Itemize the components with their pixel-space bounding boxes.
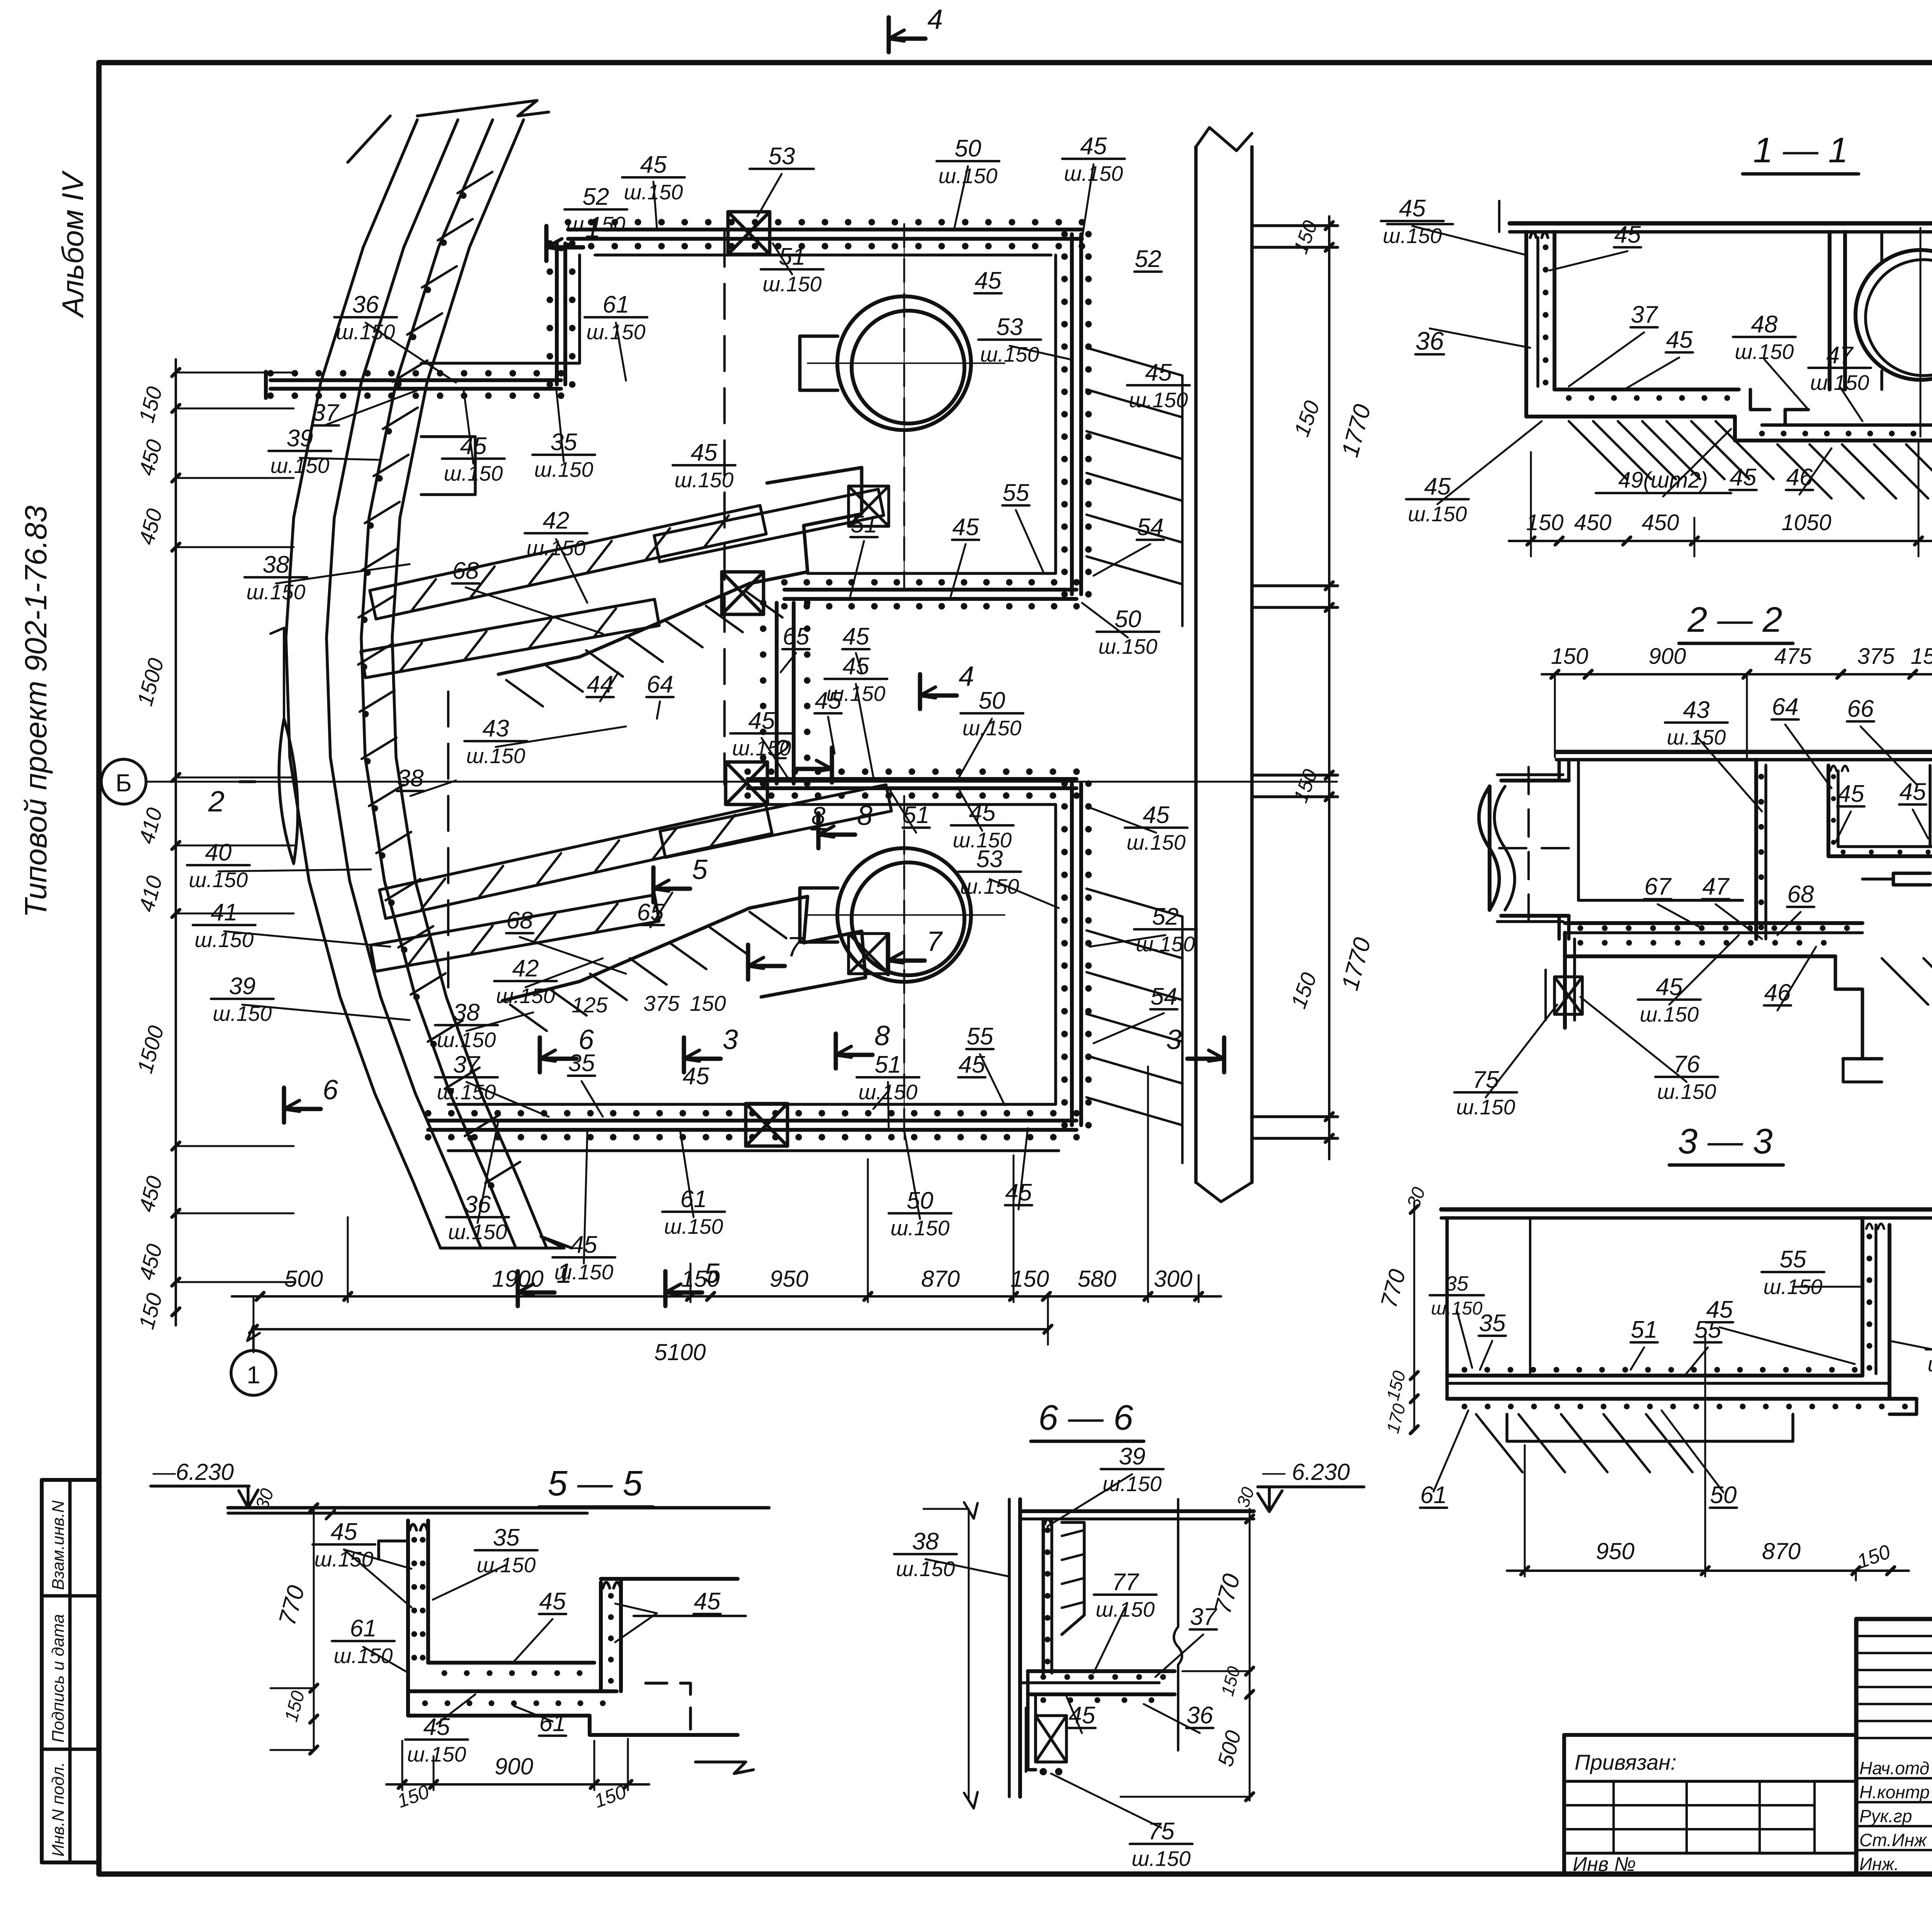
2-2 dims top	[1542, 673, 1932, 675]
section mark 1 top	[544, 226, 548, 261]
svg-text:41: 41	[211, 899, 238, 926]
svg-text:37: 37	[1631, 301, 1658, 328]
1-1 pillars	[1828, 232, 1832, 389]
6-6 mid slab	[1028, 1669, 1175, 1673]
dashed construction line x=1160 (axis2)	[447, 692, 449, 1005]
svg-text:75: 75	[1473, 1066, 1499, 1093]
2-2 floor slab	[1565, 921, 1862, 925]
svg-text:50: 50	[907, 1187, 934, 1214]
5-5 left dim chain	[313, 1508, 315, 1750]
6-6 leaders	[925, 1559, 1009, 1577]
svg-text:375: 375	[1857, 644, 1895, 669]
svg-text:51: 51	[779, 243, 806, 270]
svg-text:ш.150: ш.150	[675, 468, 734, 492]
2-2 top slab	[1556, 750, 1932, 754]
svg-text:45: 45	[640, 151, 667, 178]
6-6 right dim chain	[1249, 1509, 1251, 1801]
svg-text:61: 61	[680, 1186, 707, 1213]
plan wall: room A top	[568, 237, 1082, 241]
bottom dimension row 2: 5100	[253, 1328, 1048, 1330]
svg-text:54: 54	[1151, 983, 1177, 1010]
3-3 floor slab	[1447, 1374, 1862, 1378]
1-1 top slab	[1510, 221, 1932, 225]
ticks along curved band	[457, 172, 492, 193]
svg-text:51: 51	[1631, 1316, 1658, 1343]
svg-text:475: 475	[1774, 644, 1812, 669]
band top break	[417, 100, 549, 116]
signature table	[1856, 1617, 1932, 1621]
6-6 top slab	[1020, 1509, 1254, 1513]
1-1 left wall	[1524, 232, 1528, 417]
svg-text:4: 4	[927, 4, 943, 35]
2-2 right U box	[1827, 765, 1830, 856]
svg-text:42: 42	[543, 507, 570, 534]
3-3 left dims rotated	[1413, 1202, 1415, 1430]
svg-text:65: 65	[783, 623, 810, 650]
2-2 interior left chamber outline	[1578, 760, 1743, 900]
svg-text:1050: 1050	[1781, 510, 1831, 535]
svg-text:1 — 1: 1 — 1	[1753, 131, 1848, 170]
2-2 center wall with dots	[1754, 760, 1758, 939]
circle well room B	[837, 848, 971, 982]
svg-text:ш.150: ш.150	[1408, 502, 1467, 526]
svg-text:45: 45	[683, 1063, 709, 1090]
svg-text:77: 77	[1112, 1569, 1139, 1595]
section mark 5 mid	[651, 867, 655, 902]
svg-text:68: 68	[507, 907, 533, 934]
svg-text:43: 43	[1683, 697, 1710, 723]
3-3 left edge	[1446, 1218, 1449, 1399]
plan wall: corridor between rooms	[775, 603, 779, 784]
svg-text:Н.контр: Н.контр	[1859, 1782, 1930, 1802]
svg-text:55: 55	[967, 1023, 993, 1050]
circle centerlines	[903, 224, 905, 587]
svg-text:53: 53	[997, 314, 1023, 340]
svg-text:55: 55	[1695, 1316, 1721, 1343]
svg-text:40: 40	[205, 839, 232, 866]
inner outline offsets room A	[421, 255, 580, 363]
svg-text:38: 38	[263, 551, 289, 578]
svg-text:54: 54	[1137, 514, 1164, 541]
svg-text:3: 3	[723, 1024, 738, 1055]
svg-text:5 — 5: 5 — 5	[548, 1464, 643, 1503]
svg-text:43: 43	[483, 715, 509, 742]
svg-text:68: 68	[452, 558, 479, 584]
svg-text:450: 450	[1574, 510, 1612, 535]
svg-text:38: 38	[397, 765, 424, 792]
circle well room A	[837, 296, 971, 430]
6-6 bottom key with X	[1036, 1716, 1066, 1762]
svg-text:61: 61	[350, 1615, 377, 1642]
1-1 leaders	[1430, 328, 1530, 348]
svg-text:ш.150: ш.150	[437, 1080, 496, 1104]
svg-text:47: 47	[1827, 342, 1854, 369]
2-2 left pipe	[1501, 779, 1569, 782]
section mark 6 mid	[537, 1037, 542, 1072]
svg-text:67: 67	[1645, 873, 1672, 900]
svg-text:50: 50	[1710, 1482, 1737, 1509]
opening X-box room A top wall	[728, 212, 770, 254]
band bottom break	[440, 1236, 572, 1248]
svg-text:45: 45	[460, 433, 487, 459]
svg-text:8: 8	[874, 1020, 890, 1051]
svg-text:950: 950	[1596, 1538, 1634, 1564]
svg-text:45: 45	[1900, 779, 1926, 805]
svg-text:150: 150	[1551, 644, 1588, 669]
central slanted beams	[370, 505, 766, 619]
hatch on central wall segments	[506, 680, 543, 706]
5-5 bottom dims	[386, 1783, 649, 1786]
svg-text:38: 38	[453, 999, 480, 1026]
section mark 4 top	[886, 17, 891, 52]
svg-text:61: 61	[603, 291, 629, 318]
1-1 mid floor keys	[1750, 389, 1770, 410]
svg-text:51: 51	[875, 1051, 901, 1078]
svg-text:Привязан:: Привязан:	[1575, 1750, 1677, 1774]
svg-text:61: 61	[1420, 1482, 1447, 1509]
6-6 left dim line	[968, 1509, 970, 1801]
2-2 right lower step	[1835, 956, 1862, 1059]
svg-text:450: 450	[1642, 510, 1679, 535]
svg-text:Инв.N подл.: Инв.N подл.	[49, 1762, 68, 1857]
svg-text:39: 39	[1119, 1443, 1146, 1470]
svg-text:Рук.гр: Рук.гр	[1859, 1806, 1912, 1826]
svg-text:2: 2	[208, 785, 224, 818]
svg-text:580: 580	[1078, 1266, 1116, 1292]
svg-text:37: 37	[453, 1051, 481, 1078]
svg-text:52: 52	[1135, 246, 1162, 272]
section mark 2	[830, 748, 834, 782]
axis 1 circle bottom	[231, 1350, 276, 1395]
svg-text:45: 45	[691, 439, 718, 466]
svg-text:45: 45	[843, 623, 869, 650]
6-6 lower bracket	[1028, 1671, 1036, 1770]
svg-text:45: 45	[1730, 464, 1757, 491]
small rect near band (pos.65)	[421, 437, 475, 495]
svg-text:49(шт2): 49(шт2)	[1618, 468, 1708, 493]
svg-text:44: 44	[587, 671, 614, 698]
svg-text:52: 52	[583, 184, 609, 210]
svg-text:5: 5	[692, 854, 708, 885]
2-2 hatch right	[1882, 958, 1928, 1005]
svg-text:5100: 5100	[654, 1339, 706, 1365]
beam internal hatch ticks	[412, 579, 436, 610]
svg-text:ш.150: ш.150	[1928, 1352, 1932, 1376]
svg-text:3 — 3: 3 — 3	[1678, 1122, 1772, 1161]
svg-text:45: 45	[1666, 327, 1693, 353]
svg-text:900: 900	[495, 1753, 533, 1779]
X-box small central 1	[849, 486, 889, 526]
svg-text:5: 5	[704, 1258, 720, 1289]
svg-text:47: 47	[1702, 873, 1730, 900]
hatch strip right wall room B	[1087, 889, 1182, 917]
svg-text:ш.150: ш.150	[1383, 224, 1442, 248]
svg-text:35: 35	[1479, 1310, 1506, 1337]
svg-text:46: 46	[1764, 980, 1791, 1006]
right dim line with 150/1770 labels	[1328, 216, 1330, 1159]
svg-text:900: 900	[1649, 644, 1686, 669]
svg-text:ш.150: ш.150	[1657, 1080, 1716, 1104]
svg-text:ш.150: ш.150	[896, 1557, 955, 1581]
section mark 8 top	[816, 813, 820, 848]
5-5 leaders	[344, 1549, 412, 1569]
svg-text:8: 8	[857, 800, 872, 831]
section mark 8 bottom	[833, 1034, 838, 1068]
svg-text:125: 125	[571, 993, 608, 1017]
wall stubs y=1538	[1252, 584, 1338, 587]
svg-text:45: 45	[952, 514, 979, 541]
plan wall: room B top	[748, 786, 1077, 790]
svg-text:45: 45	[1080, 133, 1107, 160]
section mark 7 in circle	[886, 939, 890, 974]
svg-text:ш.150: ш.150	[763, 272, 822, 296]
svg-text:—6.230: —6.230	[152, 1459, 234, 1485]
svg-text:150: 150	[690, 991, 726, 1015]
5-5 left step notch	[379, 1539, 408, 1543]
1-1 under-floor hatch leaders	[1569, 421, 1627, 479]
svg-text:45: 45	[539, 1588, 566, 1615]
axis 2 lens marker	[279, 719, 298, 864]
dashed construction line x=1875	[723, 232, 726, 784]
svg-text:ш.150: ш.150	[444, 461, 503, 485]
plan wall: left wing top (pos.37 zone)	[270, 387, 561, 391]
6-6 right thin line w break	[1177, 1499, 1179, 1627]
svg-text:45: 45	[331, 1519, 357, 1545]
svg-text:870: 870	[1762, 1538, 1801, 1564]
plan wall: room B bottom	[428, 1128, 1077, 1132]
plan wall: room B right	[1070, 784, 1074, 1125]
svg-text:68: 68	[1787, 881, 1814, 908]
svg-text:950: 950	[770, 1266, 808, 1292]
svg-text:36: 36	[1187, 1702, 1213, 1729]
5-5 floor slab	[428, 1661, 594, 1665]
svg-text:150: 150	[1010, 1266, 1049, 1292]
3-3 right wall	[1861, 1218, 1864, 1376]
svg-text:42: 42	[512, 955, 539, 982]
svg-text:ш.150: ш.150	[1127, 830, 1186, 854]
svg-text:50: 50	[1115, 606, 1141, 633]
svg-text:ш.150: ш.150	[960, 874, 1019, 898]
5-5 top level lines	[228, 1506, 769, 1510]
left dim horizontal extension lines	[176, 372, 294, 374]
svg-text:ш.150: ш.150	[1456, 1095, 1515, 1119]
5-5 left wall	[406, 1520, 410, 1716]
svg-text:3: 3	[1166, 1024, 1182, 1055]
svg-text:45: 45	[1399, 195, 1426, 222]
opening X-box room A bottom wall	[722, 572, 764, 614]
svg-text:45: 45	[694, 1588, 721, 1615]
svg-text:36: 36	[352, 291, 379, 318]
wall stubs y=2912	[1252, 1115, 1338, 1118]
1-1 floor left span	[1554, 388, 1739, 391]
svg-text:300: 300	[1154, 1266, 1192, 1292]
section mark 4 mid	[918, 674, 922, 709]
section mark 3 right	[1222, 1037, 1226, 1072]
svg-text:ш.150: ш.150	[1129, 388, 1188, 412]
svg-text:7: 7	[927, 926, 943, 957]
5-5 dashed box right	[646, 1683, 690, 1735]
svg-text:6 — 6: 6 — 6	[1038, 1398, 1133, 1437]
1-1 dims bottom	[1509, 540, 1932, 542]
section mark 6 left	[282, 1088, 286, 1122]
svg-text:75: 75	[1148, 1818, 1175, 1845]
wall stubs to right column y=606	[1252, 224, 1338, 227]
svg-text:35: 35	[551, 429, 577, 456]
svg-text:55: 55	[1003, 480, 1029, 506]
svg-text:53: 53	[976, 846, 1003, 872]
svg-text:150: 150	[1911, 644, 1932, 669]
svg-text:Инв №: Инв №	[1573, 1853, 1636, 1876]
6-6 hatch trapezoid	[1062, 1522, 1084, 1634]
svg-text:45: 45	[1838, 781, 1864, 807]
3-3 top slab	[1441, 1207, 1932, 1211]
svg-text:37: 37	[1190, 1604, 1218, 1630]
svg-text:45: 45	[975, 267, 1002, 294]
3-3 leaders	[1793, 1286, 1862, 1288]
svg-text:Копировал: Пихарева: Копировал: Пихарева	[1882, 1930, 1932, 1932]
plan wall: vertical step left of room A	[563, 243, 567, 384]
svg-text:39: 39	[287, 425, 313, 452]
plan wall: room A right	[1070, 234, 1074, 594]
svg-text:8: 8	[811, 801, 826, 830]
svg-text:48: 48	[1751, 311, 1778, 338]
svg-text:51: 51	[851, 511, 878, 538]
svg-text:6: 6	[323, 1075, 338, 1105]
jagged inner wall between beams	[498, 468, 862, 674]
svg-text:4: 4	[959, 661, 974, 692]
svg-text:45: 45	[843, 653, 869, 680]
svg-text:52: 52	[1152, 903, 1179, 930]
axis Б line and circle	[146, 781, 1337, 783]
svg-text:51: 51	[903, 802, 930, 828]
svg-text:Альбом IV: Альбом IV	[56, 170, 90, 318]
svg-text:45: 45	[1145, 359, 1172, 386]
svg-text:36: 36	[464, 1191, 491, 1218]
svg-text:35: 35	[1445, 1272, 1469, 1295]
svg-text:35: 35	[493, 1524, 520, 1551]
2-2 leaders	[1696, 736, 1762, 811]
svg-text:ш.150: ш.150	[1103, 1472, 1162, 1496]
svg-text:Инж.: Инж.	[1859, 1854, 1899, 1874]
section mark 3 left	[682, 1037, 686, 1072]
wall stubs y=2028	[1252, 774, 1338, 777]
left dimension chain	[175, 359, 177, 1325]
svg-text:Взам.инв.N: Взам.инв.N	[49, 1500, 68, 1590]
2-2 left wall drop	[1563, 933, 1567, 1028]
plan wall: room A bottom	[784, 597, 1077, 601]
right vertical wall column of plan	[1194, 147, 1198, 1182]
hatch strip right wall room A	[1087, 348, 1182, 376]
svg-text:66: 66	[1847, 696, 1874, 722]
svg-text:— 6.230: — 6.230	[1262, 1459, 1350, 1485]
svg-text:2 — 2: 2 — 2	[1687, 600, 1782, 639]
bottom dimension row 1	[232, 1295, 1221, 1298]
svg-text:ш.150: ш.150	[1431, 1298, 1483, 1319]
sheet border frame	[99, 60, 1932, 65]
svg-text:45: 45	[748, 707, 775, 734]
2-2 bottom key with X	[1554, 977, 1582, 1014]
svg-text:46: 46	[1786, 464, 1813, 491]
plan curved outer wall band	[286, 120, 440, 1248]
svg-text:61: 61	[539, 1710, 566, 1736]
6-6 bottom dots	[1040, 1768, 1047, 1775]
opening X-box room B top wall	[726, 762, 767, 804]
X-box small central 2	[849, 934, 889, 974]
stamp column boxes bottom-left	[42, 1478, 99, 1482]
5-5 right wall	[599, 1582, 603, 1691]
svg-text:ш.150: ш.150	[1640, 1002, 1699, 1026]
svg-text:64: 64	[1772, 694, 1799, 720]
svg-text:1: 1	[247, 1361, 260, 1389]
privyazan box	[1564, 1733, 1856, 1737]
extension verticals for bottom dims	[253, 1296, 255, 1352]
5-5 right top slab	[601, 1577, 738, 1581]
svg-text:7: 7	[787, 932, 803, 963]
inner outline offsets room B	[448, 804, 1056, 1104]
section mark 7 left	[746, 945, 750, 980]
outer offset below room B bottom wall	[448, 1149, 1059, 1152]
svg-text:Б: Б	[116, 769, 132, 797]
svg-text:45: 45	[1069, 1702, 1095, 1729]
svg-text:870: 870	[921, 1266, 960, 1292]
svg-text:50: 50	[955, 135, 981, 162]
svg-text:500: 500	[284, 1266, 323, 1292]
6-6 left wall	[1018, 1499, 1022, 1797]
svg-text:53: 53	[769, 143, 795, 170]
svg-text:Подпись и дата: Подпись и дата	[49, 1614, 68, 1743]
opening X-box room B bottom wall	[746, 1104, 787, 1146]
3-3 under-floor box	[1507, 1414, 1793, 1441]
svg-text:Нач.отд: Нач.отд	[1859, 1758, 1929, 1778]
svg-text:375: 375	[643, 991, 680, 1015]
svg-text:38: 38	[912, 1528, 939, 1555]
6-6 inner wall with dots	[1042, 1519, 1045, 1673]
section mark 1 bottom	[515, 1271, 520, 1306]
svg-text:45: 45	[1614, 221, 1641, 248]
svg-text:45: 45	[1143, 802, 1170, 828]
svg-text:Типовой проект 902-1-76.83: Типовой проект 902-1-76.83	[19, 505, 53, 918]
svg-text:50: 50	[979, 687, 1005, 714]
svg-text:39: 39	[229, 973, 256, 1000]
svg-text:ш.150: ш.150	[1810, 371, 1869, 395]
section mark 5 bottom	[663, 1271, 667, 1306]
svg-text:ш.150: ш.150	[407, 1742, 466, 1766]
svg-text:35: 35	[568, 1050, 595, 1077]
1-1 pipe circle	[1855, 250, 1932, 380]
plan leader lines	[653, 182, 657, 228]
svg-text:ш.150: ш.150	[1132, 1847, 1191, 1871]
svg-text:64: 64	[647, 671, 673, 698]
svg-text:Ст.Инж: Ст.Инж	[1859, 1830, 1927, 1850]
3-3 bottom dims	[1507, 1570, 1909, 1572]
svg-text:45: 45	[815, 687, 842, 714]
1-1 floor center lowered	[1733, 417, 1737, 440]
svg-text:ш.150: ш.150	[566, 212, 626, 236]
svg-text:55: 55	[1780, 1246, 1806, 1273]
